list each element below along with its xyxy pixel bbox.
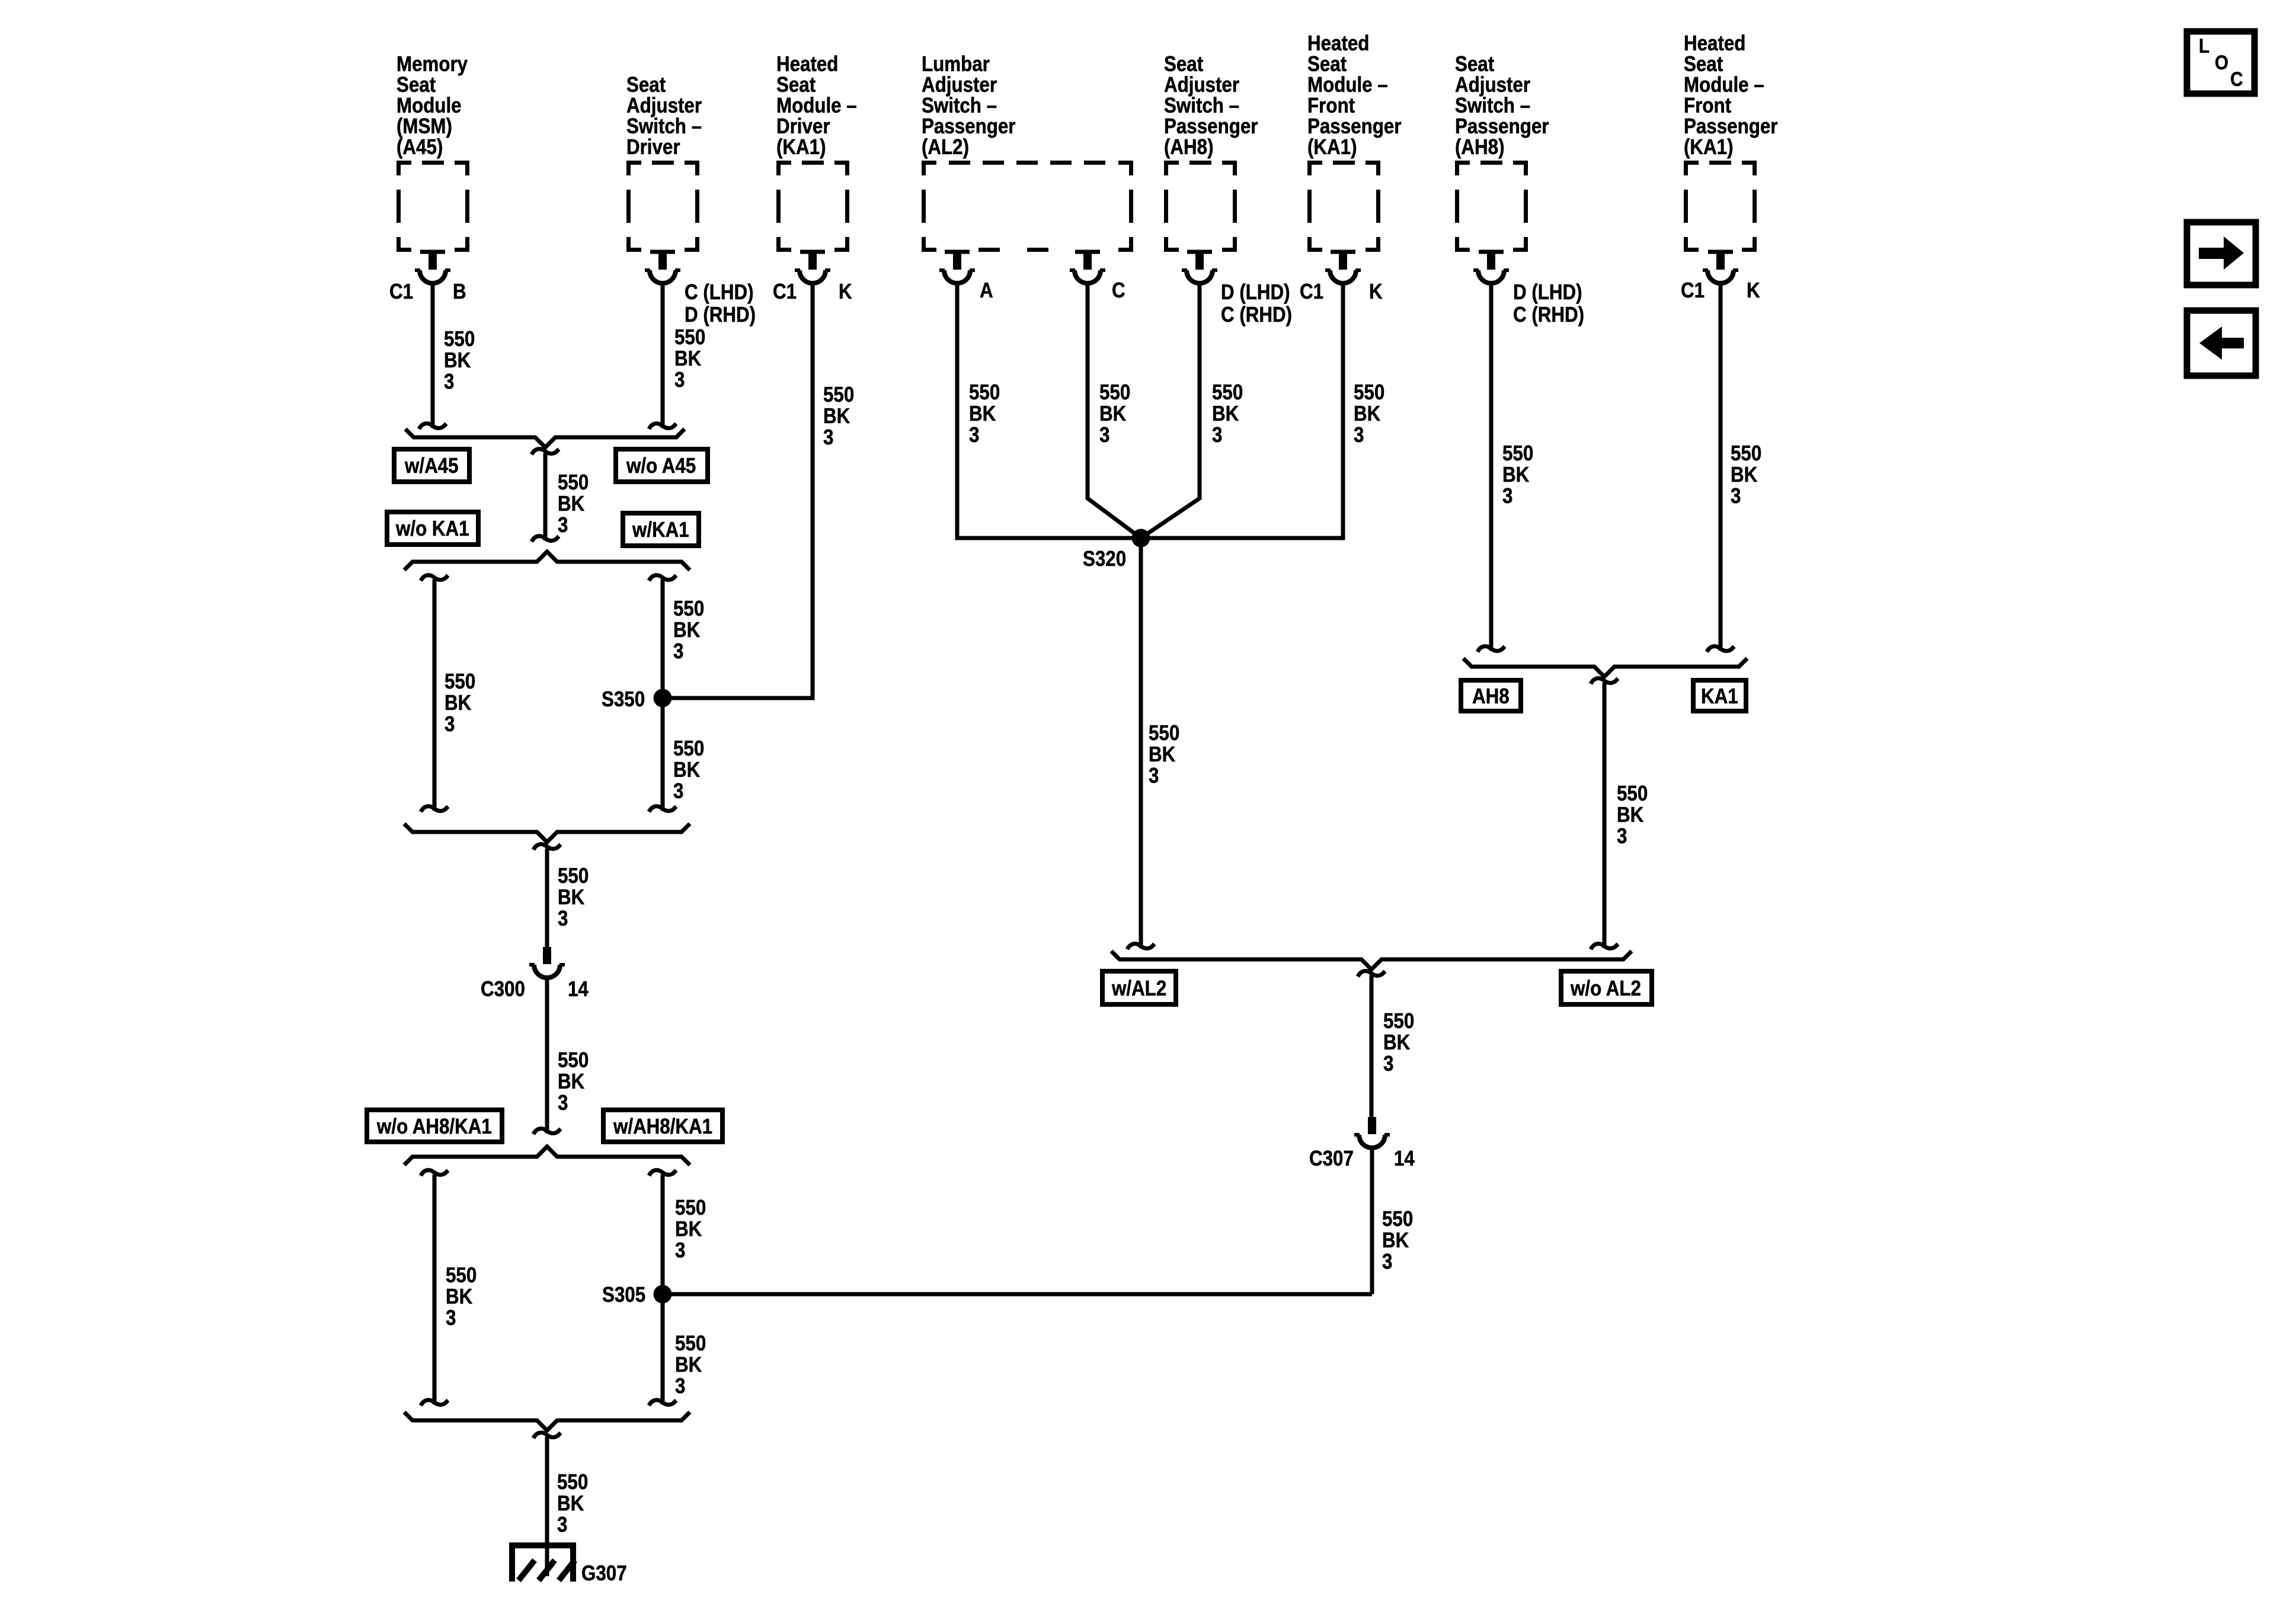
option brace w/o KA1 vs w/KA1 [404,552,690,570]
pin label K (HSM driver) [839,281,852,302]
option w/o AL2 label [1571,978,1641,999]
component box Seat Adjuster Switch - Driver [626,161,699,252]
wire label 550 BK 3 (loop1 left) [445,671,475,735]
ground G307 symbol [509,1542,576,1582]
splice S305 [654,1285,672,1304]
label Memory Seat Module [396,53,468,157]
pin label D(LHD)/C(RHD) AH8 [1221,281,1292,326]
hook bottom of mid wire [532,536,559,542]
wire end hook (col9) [1707,646,1734,652]
wire 550 BK from MSM C1-B [431,283,435,428]
connector C1 pin K of Heated Seat Module Driver [795,250,830,284]
wire 550 BK from S320 down [1139,538,1143,948]
option AH8 label [1472,686,1510,707]
pin label D(LHD)/C(RHD) AH8 #2 [1513,281,1584,326]
component box Seat Adjuster Switch - Passenger (AH8) #2 [1455,161,1528,252]
option w/o A45 box [616,449,708,482]
connector of Seat Adjuster Switch Passenger AH8 #2 [1473,250,1509,284]
option w/o AH8/KA1 box [367,1110,502,1142]
LOC letters [2199,38,2243,88]
wire label 550 BK 3 (col5) [1099,382,1130,446]
wire 550 BK to C300 [545,849,549,947]
option w/AL2 label [1112,978,1166,999]
loop1 right wire 550 BK upper [661,580,665,811]
option brace w/A45 vs w/o A45 [405,429,685,447]
wire label 550 BK 3 (below C300) [558,1049,589,1113]
splice label S350 [602,689,645,710]
option w/A45 box [394,449,469,482]
connector pin A of AL2 [939,250,975,284]
connector C1 pin K of Heated Seat Module Front Passenger 2 [1703,250,1738,284]
label Lumbar Adjuster Switch Passenger [922,53,1015,157]
splice label S305 [602,1284,645,1305]
brace joining loop1 [404,824,690,842]
wire label 550 BK 3 (S320 wire) [1149,722,1179,786]
wire 550 BK from Heated Seat Module Front Pass 1 to S320 [1141,283,1343,538]
wire label 550 BK 3 (AH8/KA1 wire) [1617,783,1648,847]
option w/A45 label [405,455,459,476]
wire 550 BK from AL2 pin A to S320 [957,283,1141,538]
wire label 550 BK 3 (col6) [1212,382,1243,446]
hook bottom of AH8/KA1 mid wire [1591,944,1618,949]
splice S350 [654,689,672,708]
option brace w/o AH8/KA1 vs w/AH8/KA1 [404,1147,690,1165]
LOC reference box [2187,31,2255,94]
wire 550 BK from AH8 switch to S320 [1141,283,1200,538]
pin label C1 (HSM driver) [773,281,797,302]
pin label C (AL2) [1112,280,1125,301]
option w/AH8/KA1 box [603,1110,722,1142]
wire label 550 BK 3 (loop2 right upper) [675,1197,706,1261]
back arrow box [2187,311,2256,376]
wire label 550 BK 3 (col8) [1502,443,1533,507]
component box Heated Seat Module - Front Passenger (KA1) #1 [1307,161,1380,252]
option AH8 box [1461,680,1521,711]
label Seat Adjuster Switch Driver [626,74,702,157]
pin label A (AL2) [980,280,993,301]
label Heated Seat Module Driver [776,53,857,157]
hook top of wire to C307 [1358,971,1385,977]
pin label B (MSM) [453,281,466,302]
connector label C307 [1309,1148,1354,1169]
mid wire 550 BK below AH8/KA1 brace [1603,683,1607,948]
wire 550 BK from S305 to C307 leg [663,1292,1372,1297]
option w/o KA1 label [396,518,469,539]
pin label K (HSM pass 2) [1747,280,1760,301]
wire label 550 BK 3 (loop1 right upper) [673,598,704,662]
wire label 550 BK 3 (loop2 left) [446,1265,477,1329]
wire 550 BK from Seat Adjuster Switch Driver [661,283,665,428]
pin label C(LHD)/D(RHD) [685,281,756,326]
hook top of ground wire [533,1433,561,1438]
option KA1 label [1701,686,1738,707]
wire label 550 BK 3 (loop2 right lower) [675,1333,706,1397]
wire end hook (S320 wire) [1127,944,1155,949]
hook bottom of loop1 left wire [421,806,448,812]
option brace w/AL2 vs w/o AL2 [1111,951,1632,969]
wire end hook (col2) [649,424,676,429]
component box Heated Seat Module - Front Passenger (KA1) #2 [1684,161,1757,252]
wire label 550 BK 3 (above C307) [1383,1010,1414,1074]
connector C300 pin 14 [529,947,565,978]
pin label 14 (C307) [1394,1148,1415,1169]
label Heated Seat Module Front Passenger 2 [1684,33,1777,157]
hook bottom of loop1 right wire [649,806,676,812]
forward arrow [2199,236,2244,270]
hook top of loop2 right wire [649,1170,676,1176]
option w/o AL2 box [1561,971,1652,1004]
label Heated Seat Module Front Passenger 1 [1307,33,1401,157]
wire label 550 BK 3 (col2) [674,327,705,391]
wire label 550 BK 3 (col9) [1731,443,1761,507]
component box Memory Seat Module (MSM)(A45) [396,161,469,252]
wire label 550 BK 3 (mid wire) [558,472,589,536]
wire 550 BK to ground G307 [545,1437,549,1576]
wire 550 BK below C307 to S305 [1370,1148,1374,1294]
connector pin C of AL2 [1070,250,1105,284]
hook bottom of loop2 right wire [649,1400,676,1406]
loop1 left wire 550 BK [433,580,437,811]
ground label G307 [581,1563,627,1584]
connector of Seat Adjuster Switch Passenger AH8 [1182,250,1217,284]
option w/AL2 box [1102,971,1176,1004]
wire label 550 BK 3 (col4) [969,382,1000,446]
wire label 550 BK 3 (col3) [823,384,854,448]
label Seat Adjuster Switch Passenger [1164,53,1258,157]
option w/AH8/KA1 label [613,1116,712,1137]
option w/o A45 label [626,455,696,476]
pin label C1 (HSM pass 2) [1681,280,1705,301]
wire 550 BK below C300 [545,978,549,1133]
hook top of loop2 left wire [421,1170,448,1176]
hook top of mid wire [532,449,559,454]
pin label 14 (C300) [568,978,589,1000]
loop2 right wire 550 BK [661,1174,665,1404]
wire end hook (col8) [1478,646,1505,652]
hook top of loop1 left wire [421,575,448,581]
mid wire 550 BK between option braces [543,453,548,540]
connector of Seat Adjuster Switch Driver [645,250,680,284]
option w/KA1 box [623,513,699,546]
hook top of loop1 right wire [649,575,676,581]
splice S320 [1132,529,1150,548]
wire label 550 BK 3 (loop1 right lower) [673,738,704,802]
hook bottom of loop2 left wire [421,1400,448,1406]
back arrow [2199,327,2244,360]
hook top of wire to C300 [533,844,561,850]
wire label 550 BK 3 (ground wire) [557,1471,588,1535]
wire 550 BK from AH8 switch #2 [1489,283,1494,651]
wire 550 BK from Heated Seat Module Driver to S350 [663,283,813,698]
option w/o AH8/KA1 label [377,1116,492,1137]
connector C1 pin B of MSM [415,250,450,284]
option KA1 box [1693,680,1746,711]
wire label 550 BK 3 (col7) [1354,382,1384,446]
forward arrow box [2187,222,2256,285]
hook bottom of wire below C300 [533,1129,561,1134]
option brace AH8 vs KA1 [1463,658,1747,677]
component box Heated Seat Module - Driver (KA1) [776,161,849,252]
connector C1 pin K of Heated Seat Module Front Passenger 1 [1325,250,1361,284]
wire 550 BK to C307 [1370,975,1374,1117]
component box Lumbar Adjuster Switch - Passenger (AL2) [922,161,1133,252]
brace joining loop2 [404,1412,690,1430]
label Seat Adjuster Switch Passenger 2 [1455,53,1549,157]
wire 550 BK from AL2 pin C to S320 [1088,283,1141,538]
loop2 left wire 550 BK [433,1174,437,1404]
wire end hook (MSM wire) [419,424,446,429]
pin label C1 (HSM pass 1) [1300,281,1323,302]
connector C307 pin 14 [1354,1117,1390,1148]
pin label K (HSM pass 1) [1369,281,1383,302]
pin label C1 (MSM) [389,281,413,302]
component box Seat Adjuster Switch - Passenger (AH8) [1164,161,1237,252]
wire label 550 BK 3 (below C307) [1382,1208,1413,1272]
option w/o KA1 box [387,512,478,545]
connector label C300 [481,978,525,1000]
wire 550 BK from Heated Seat Module Front Pass 2 [1719,283,1723,651]
wire label 550 BK 3 (above C300) [558,865,589,929]
wire label 550 BK 3 (col1) [444,328,475,392]
splice label S320 [1083,548,1126,569]
option w/KA1 label [632,519,689,540]
hook top of AH8/KA1 mid wire [1591,678,1618,684]
